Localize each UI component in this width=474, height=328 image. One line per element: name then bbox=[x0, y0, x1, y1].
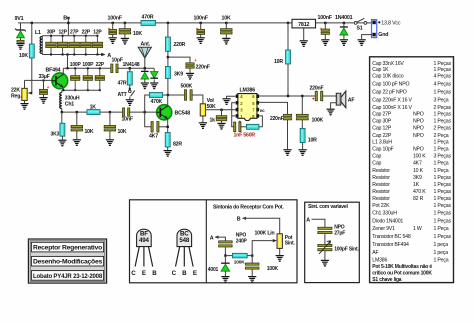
svg-text:100nF: 100nF bbox=[108, 16, 123, 22]
svg-text:Cap 10pF: Cap 10pF bbox=[372, 147, 393, 153]
svg-text:E: E bbox=[142, 270, 146, 277]
svg-text:100K Lin: 100K Lin bbox=[255, 230, 275, 236]
svg-text:10 K: 10 K bbox=[413, 168, 424, 174]
svg-text:1 Peça: 1 Peça bbox=[434, 140, 449, 146]
resistor 10K from rail bbox=[31, 22, 33, 24]
svg-text:Gnd: Gnd bbox=[378, 32, 388, 38]
svg-text:10K: 10K bbox=[222, 16, 231, 22]
svg-text:Resistor: Resistor bbox=[372, 175, 390, 181]
svg-text:10K: 10K bbox=[85, 129, 94, 135]
svg-text:Cap 33nX 16V: Cap 33nX 16V bbox=[372, 61, 404, 67]
wire antenna down bbox=[144, 58, 146, 68]
wire lower rail mid bbox=[100, 111, 123, 113]
wire 470K to base bbox=[145, 95, 150, 112]
svg-text:1k: 1k bbox=[210, 117, 216, 123]
svg-text:Cap 27P: Cap 27P bbox=[372, 112, 392, 118]
svg-text:E: E bbox=[193, 270, 197, 277]
wire A to 27pF bbox=[312, 219, 325, 227]
svg-text:Resistor: Resistor bbox=[372, 168, 390, 174]
svg-text:C: C bbox=[131, 270, 136, 277]
wire 12V supply rail bbox=[18, 22, 292, 24]
svg-text:Diodo 1N4001: Diodo 1N4001 bbox=[372, 218, 403, 224]
wire B to pot sint bbox=[243, 218, 280, 234]
svg-text:NPO: NPO bbox=[413, 112, 424, 118]
wire BF494 collector to regen rail bbox=[62, 68, 64, 74]
svg-text:Resistor: Resistor bbox=[372, 182, 390, 188]
wire variable cap to ground bbox=[324, 251, 326, 260]
title block bbox=[28, 239, 106, 283]
transistor package BF494 bbox=[137, 229, 152, 246]
svg-text:3K9: 3K9 bbox=[413, 175, 422, 181]
ground wire from connector bbox=[362, 35, 372, 40]
svg-text:10K: 10K bbox=[133, 31, 142, 37]
wire 10K resistor down to 22K pot wiper bbox=[28, 58, 32, 93]
svg-text:1K: 1K bbox=[413, 182, 420, 188]
svg-text:10nF: 10nF bbox=[122, 117, 133, 123]
capacitor 4K7 emitter bbox=[145, 112, 151, 127]
svg-text:Zener 9V1: Zener 9V1 bbox=[372, 226, 395, 232]
svg-text:AF: AF bbox=[348, 98, 356, 104]
svg-text:LM386: LM386 bbox=[372, 258, 387, 264]
regulator U2 7812 bbox=[292, 19, 316, 28]
box sint com variavel bbox=[305, 202, 360, 282]
svg-text:100K: 100K bbox=[312, 117, 324, 123]
switch S1 bbox=[354, 22, 357, 25]
svg-text:494: 494 bbox=[139, 237, 149, 244]
wire LM386 pin1 stub bbox=[232, 115, 236, 117]
svg-text:1 Peça: 1 Peça bbox=[434, 226, 449, 232]
junction tank to regen rail bbox=[66, 53, 68, 55]
resistor 3K9 bbox=[165, 66, 170, 78]
svg-text:Cap 220nF X 16 V: Cap 220nF X 16 V bbox=[372, 98, 412, 104]
wire A to cap 240P bbox=[215, 237, 225, 241]
svg-text:B: B bbox=[182, 270, 187, 277]
svg-text:3K9: 3K9 bbox=[174, 72, 183, 78]
wire choke to lower rail bbox=[61, 109, 63, 113]
ground below 7812 bbox=[303, 28, 305, 40]
svg-text:Ch1 330uH: Ch1 330uH bbox=[372, 211, 397, 217]
svg-text:Reg.: Reg. bbox=[11, 94, 22, 100]
svg-text:1 Peças: 1 Peças bbox=[434, 112, 452, 118]
switch ATT bbox=[129, 85, 131, 89]
pin 3 LM386 left bbox=[236, 108, 239, 112]
wire to speaker bbox=[322, 95, 336, 97]
wire pot sint ground bbox=[279, 248, 281, 255]
capacitor 10K bypass B bbox=[109, 112, 111, 125]
speaker AF bbox=[341, 91, 346, 108]
svg-text:Resistor: Resistor bbox=[372, 189, 390, 195]
svg-text:Receptor Regenerativo: Receptor Regenerativo bbox=[33, 245, 102, 252]
svg-text:100nF: 100nF bbox=[194, 16, 209, 22]
svg-text:nc: nc bbox=[260, 108, 265, 113]
capacitor 500K coupling bbox=[168, 94, 185, 96]
svg-text:100pF Sint.: 100pF Sint. bbox=[334, 247, 359, 253]
wire BC548 emitter down bbox=[167, 119, 169, 133]
svg-text:3K3: 3K3 bbox=[51, 132, 60, 138]
svg-text:Transistor BF494: Transistor BF494 bbox=[372, 242, 409, 248]
resistor 220R bbox=[167, 22, 169, 24]
svg-text:A: A bbox=[306, 217, 310, 223]
svg-text:100P: 100P bbox=[82, 62, 94, 68]
svg-text:Sint. com variavel: Sint. com variavel bbox=[308, 204, 349, 210]
svg-text:Cap: Cap bbox=[372, 161, 381, 167]
svg-text:10K: 10K bbox=[19, 53, 28, 59]
svg-text:1 Peças: 1 Peças bbox=[434, 67, 452, 73]
svg-text:1 Peças: 1 Peças bbox=[434, 175, 452, 181]
svg-text:crítico ou Pot comum 100K: crítico ou Pot comum 100K bbox=[372, 270, 432, 276]
pin 2 LM386 left bbox=[236, 101, 239, 105]
svg-text:548: 548 bbox=[179, 237, 189, 244]
svg-text:Pot 22K: Pot 22K bbox=[372, 203, 390, 209]
svg-text:1 peça: 1 peça bbox=[434, 250, 449, 256]
ground below zener bbox=[20, 38, 22, 41]
wire LM386 pin7 bypass bbox=[259, 102, 287, 114]
resistor 10R supply filter bbox=[286, 50, 291, 64]
svg-text:47R: 47R bbox=[118, 81, 127, 87]
transistor package BC548 bbox=[177, 229, 192, 246]
svg-text:240P: 240P bbox=[236, 238, 248, 244]
svg-text:1 Peças: 1 Peças bbox=[434, 211, 452, 217]
svg-text:1 Peças: 1 Peças bbox=[434, 203, 452, 209]
svg-text:50K: 50K bbox=[207, 104, 216, 110]
svg-text:1 Peça: 1 Peça bbox=[434, 168, 449, 174]
svg-text:B: B bbox=[63, 16, 67, 22]
svg-text:NPO: NPO bbox=[413, 133, 424, 139]
svg-text:LM386: LM386 bbox=[240, 88, 256, 94]
zener D1 9V1 bbox=[20, 23, 22, 30]
wire 10pF to clamp node bbox=[117, 67, 154, 69]
svg-text:27pF: 27pF bbox=[334, 231, 345, 237]
svg-text:500K: 500K bbox=[181, 84, 193, 90]
svg-text:A: A bbox=[210, 235, 214, 241]
pin 7 LM386 right bbox=[256, 108, 259, 112]
wire vol wiper to LM386 bbox=[206, 109, 236, 111]
svg-text:13.8 Vcc: 13.8 Vcc bbox=[381, 21, 401, 27]
svg-text:AF: AF bbox=[372, 250, 378, 256]
svg-text:ATT: ATT bbox=[118, 92, 128, 98]
svg-text:Cap 10K disco: Cap 10K disco bbox=[372, 73, 403, 79]
svg-text:B: B bbox=[237, 216, 241, 222]
node A label bbox=[101, 53, 105, 57]
capacitor 100K zobel bbox=[301, 96, 303, 114]
svg-text:Cap 22P: Cap 22P bbox=[372, 133, 392, 139]
diode clamp D2 left bbox=[144, 68, 146, 71]
svg-text:470R: 470R bbox=[142, 15, 154, 21]
capacitor 220nF electrolytic bbox=[168, 57, 190, 63]
svg-text:10R: 10R bbox=[274, 59, 283, 65]
wire 100K to node2 bbox=[247, 255, 252, 257]
svg-text:1 Peças: 1 Peças bbox=[434, 119, 452, 125]
svg-text:470K: 470K bbox=[151, 99, 163, 105]
svg-text:1 W: 1 W bbox=[413, 226, 422, 232]
wire 22K pot to ground bbox=[24, 101, 26, 104]
svg-text:100K: 100K bbox=[267, 266, 279, 272]
svg-text:S1 chave liga: S1 chave liga bbox=[372, 277, 402, 283]
svg-text:1 Peças: 1 Peças bbox=[434, 196, 452, 202]
svg-text:NPO: NPO bbox=[413, 119, 424, 125]
svg-text:C: C bbox=[172, 270, 177, 277]
svg-text:220nF: 220nF bbox=[270, 116, 284, 122]
pin 1 LM386 left bbox=[236, 114, 239, 118]
svg-text:1N4001: 1N4001 bbox=[335, 15, 353, 21]
svg-text:Cap 100nF X 16 V: Cap 100nF X 16 V bbox=[372, 105, 412, 111]
svg-text:100P: 100P bbox=[70, 62, 82, 68]
svg-text:22P: 22P bbox=[96, 62, 105, 68]
transistor Q2 BC548 bbox=[157, 105, 172, 120]
wire LM386 V+ output line bbox=[259, 95, 316, 97]
svg-text:10pF: 10pF bbox=[112, 58, 123, 64]
capacitor variable 100pF Sint bbox=[318, 244, 332, 246]
svg-text:Cap 12P: Cap 12P bbox=[372, 126, 392, 132]
wire rail down to 10R bbox=[287, 22, 289, 24]
capacitor 10K disc at rail bbox=[124, 22, 126, 24]
wire speaker return to ground bbox=[331, 103, 337, 109]
svg-text:4 Peças: 4 Peças bbox=[434, 81, 452, 87]
svg-text:1 Peça: 1 Peça bbox=[434, 147, 449, 153]
svg-text:4K7: 4K7 bbox=[413, 161, 422, 167]
svg-text:L1 3.8uH: L1 3.8uH bbox=[372, 140, 392, 146]
wire tank top rail bbox=[42, 35, 97, 37]
svg-text:1 Peças: 1 Peças bbox=[434, 234, 452, 240]
wire BC548 collector up bbox=[167, 95, 169, 106]
svg-text:Cap 30P: Cap 30P bbox=[372, 119, 392, 125]
svg-text:2 Peças: 2 Peças bbox=[434, 105, 452, 111]
svg-text:220R: 220R bbox=[174, 42, 186, 48]
wire emitter bottom rail bbox=[63, 88, 100, 90]
wire 10R down to LM386 V+ line bbox=[287, 64, 289, 96]
capacitor 10K bypass A bbox=[76, 111, 78, 113]
wire coupling to BC548 base bbox=[129, 111, 157, 113]
inductor Ch1 330uH choke bbox=[61, 90, 63, 92]
svg-text:NPO: NPO bbox=[334, 224, 345, 230]
wire tank bottom rail to node A bbox=[42, 54, 104, 56]
svg-text:9V1: 9V1 bbox=[15, 16, 24, 22]
svg-text:1 Peças: 1 Peças bbox=[434, 189, 452, 195]
svg-text:1 Peças: 1 Peças bbox=[434, 182, 452, 188]
svg-text:4001: 4001 bbox=[208, 267, 219, 273]
svg-text:27P: 27P bbox=[70, 29, 79, 35]
svg-text:Ch1: Ch1 bbox=[65, 102, 75, 108]
svg-text:82 R: 82 R bbox=[413, 196, 424, 202]
wire rail after regulator to connector bbox=[315, 22, 372, 24]
svg-text:1 Peça: 1 Peça bbox=[434, 258, 449, 264]
diode clamp D3 right bbox=[153, 68, 155, 71]
svg-text:Sint.: Sint. bbox=[285, 241, 296, 247]
svg-text:1 Peças: 1 Peças bbox=[434, 61, 452, 67]
svg-text:Resistor: Resistor bbox=[372, 196, 390, 202]
svg-text:3 Peças: 3 Peças bbox=[434, 154, 452, 160]
wire BF494 base line bbox=[25, 79, 53, 81]
wire vol pot to ground bbox=[202, 116, 204, 122]
svg-text:S1: S1 bbox=[357, 26, 363, 32]
wire 220R to 3K9 bbox=[167, 51, 169, 66]
svg-text:82R: 82R bbox=[173, 142, 182, 148]
svg-text:12P: 12P bbox=[93, 29, 102, 35]
svg-text:100nF: 100nF bbox=[318, 15, 333, 21]
svg-text:Sintonia do Receptor Com Pot.: Sintonia do Receptor Com Pot. bbox=[213, 204, 284, 210]
resistor 47R attenuator bbox=[129, 67, 131, 69]
wire snubber to pin5 bbox=[259, 116, 262, 127]
svg-text:1N4148: 1N4148 bbox=[123, 62, 140, 68]
capacitor 10nF series coupling bbox=[123, 108, 125, 110]
svg-text:Transistor BC 548: Transistor BC 548 bbox=[372, 234, 411, 240]
svg-text:Cap 100 pF NPO: Cap 100 pF NPO bbox=[372, 81, 409, 87]
pin 5 LM386 right bbox=[256, 101, 259, 105]
resistor 3K3 to ground bbox=[61, 112, 63, 123]
svg-text:1nF 560R: 1nF 560R bbox=[234, 133, 256, 139]
svg-text:NPO: NPO bbox=[413, 126, 424, 132]
wire regen feedback rail bbox=[63, 67, 112, 69]
svg-text:1 Peças: 1 Peças bbox=[434, 218, 452, 224]
svg-text:Desenho-Modificações: Desenho-Modificações bbox=[33, 259, 103, 266]
svg-text:100 K: 100 K bbox=[413, 154, 426, 160]
svg-text:30P: 30P bbox=[47, 29, 56, 35]
label 13.8 Vcc bbox=[378, 21, 380, 23]
svg-text:4K7: 4K7 bbox=[149, 134, 158, 140]
resistor 100K sintonia bbox=[225, 255, 232, 257]
svg-text:10R: 10R bbox=[308, 137, 317, 143]
pin 6 LM386 right bbox=[256, 94, 259, 98]
parts list box bbox=[370, 57, 454, 283]
svg-text:470 K: 470 K bbox=[413, 189, 426, 195]
resistor 470K feedback bbox=[149, 94, 168, 96]
svg-text:Cap 22 pF NPO: Cap 22 pF NPO bbox=[372, 90, 406, 96]
svg-text:12P: 12P bbox=[58, 29, 67, 35]
pin 8 LM386 right bbox=[256, 114, 259, 118]
svg-text:4 Peças: 4 Peças bbox=[434, 73, 452, 79]
svg-text:L1: L1 bbox=[35, 30, 41, 36]
svg-text:3 Peça: 3 Peça bbox=[434, 98, 449, 104]
capacitor 100K sintonia filter bbox=[251, 256, 253, 263]
svg-text:Lobato PY4JR 23-12-2008: Lobato PY4JR 23-12-2008 bbox=[33, 273, 103, 280]
svg-text:7812: 7812 bbox=[298, 22, 309, 28]
svg-text:Ant.: Ant. bbox=[141, 42, 151, 48]
svg-text:BC548: BC548 bbox=[175, 111, 191, 117]
svg-text:B: B bbox=[152, 270, 157, 277]
wire 3K9 down to BC548 collector node bbox=[167, 79, 169, 96]
capacitor 1nF snubber bbox=[239, 121, 241, 123]
svg-text:22P: 22P bbox=[82, 29, 91, 35]
svg-text:Cap: Cap bbox=[372, 154, 381, 160]
svg-text:Pot 5-10K Multivoltas não é: Pot 5-10K Multivoltas não é bbox=[372, 264, 432, 270]
svg-text:1 Peça: 1 Peça bbox=[434, 161, 449, 167]
svg-text:1 Peças: 1 Peças bbox=[434, 90, 452, 96]
svg-text:100K: 100K bbox=[234, 260, 245, 266]
wire node2 up to pot wiper bbox=[252, 241, 272, 256]
wire node B down to tank bbox=[67, 18, 69, 36]
svg-text:220nF: 220nF bbox=[310, 86, 324, 92]
box transistor pinouts and sintonia bbox=[130, 200, 298, 283]
svg-text:1 peça: 1 peça bbox=[434, 242, 449, 248]
ground at LM386 pin 4 bbox=[227, 96, 236, 98]
svg-text:33µF: 33µF bbox=[39, 74, 50, 80]
resistor 10R zobel bbox=[301, 120, 303, 128]
resistor 560R snubber bbox=[240, 126, 246, 128]
resistor 82R emitter bbox=[165, 133, 170, 148]
pin 4 LM386 left bbox=[236, 94, 239, 98]
svg-text:2 Peças: 2 Peças bbox=[434, 126, 452, 132]
wire lower rail left bbox=[62, 111, 87, 113]
connector J1 13.8V input bbox=[372, 20, 377, 38]
svg-text:10K: 10K bbox=[118, 129, 127, 135]
svg-text:NPO: NPO bbox=[413, 147, 424, 153]
wire 500K cap to volume pot bbox=[192, 95, 203, 104]
svg-text:2 Peça: 2 Peça bbox=[434, 133, 449, 139]
svg-text:Cap 1K: Cap 1K bbox=[372, 67, 389, 73]
wire LM386 pin2 loop bbox=[232, 103, 236, 127]
svg-text:220nF: 220nF bbox=[196, 65, 211, 71]
